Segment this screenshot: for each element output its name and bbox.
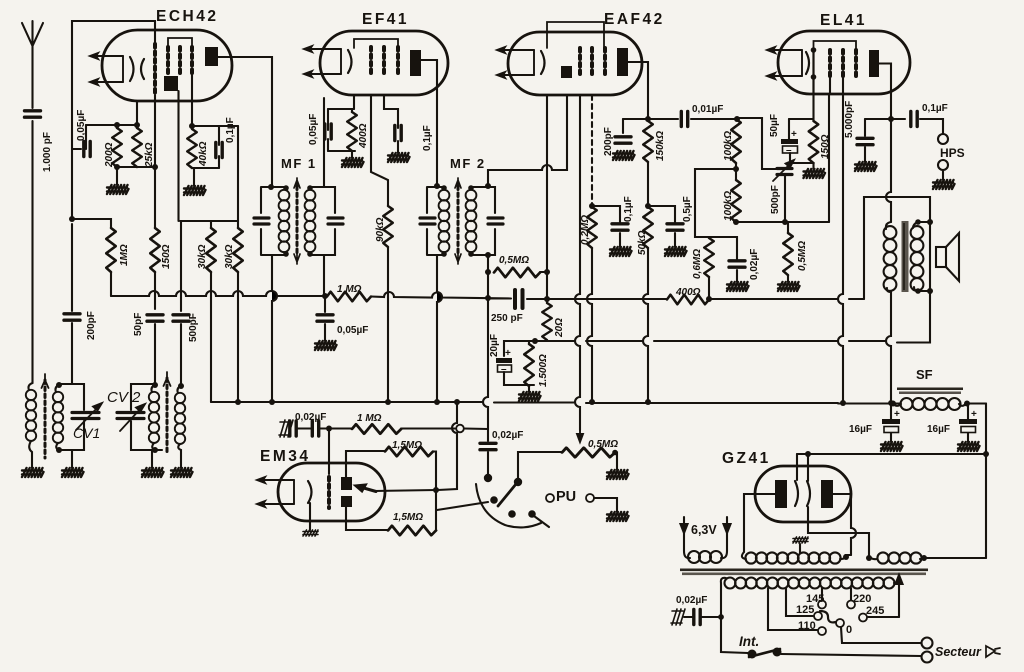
wire PU to ground [594,498,617,512]
svg-text:0,1µF: 0,1µF [225,117,236,143]
mains terminals [922,638,933,649]
wire diode to MF2 top [488,95,567,186]
output transformer primary [884,226,897,291]
svg-text:+: + [791,129,797,140]
resistor 50k [643,207,653,248]
wire selector to mains [841,627,921,643]
svg-text:220: 220 [853,593,871,605]
secondary frame [918,222,930,292]
node cathode rail [86,124,138,126]
resistor 30k second [237,221,239,228]
grid rail EL41 [736,221,829,223]
cathode bottom rail EL41 [790,163,814,169]
svg-text:PU: PU [556,489,576,505]
svg-text:Int.: Int. [739,634,759,649]
svg-text:CV 2: CV 2 [107,389,141,406]
wire 150 bottom to 50pF [154,272,156,309]
capacitor 200pF [64,314,80,320]
capacitor 5000pF [864,119,866,136]
rail 40k top [192,125,238,127]
svg-text:0,02µF: 0,02µF [749,249,760,280]
svg-text:0,2MΩ: 0,2MΩ [580,215,591,245]
ground [107,185,129,194]
svg-text:150Ω: 150Ω [820,134,831,159]
wire g1 down [154,95,156,228]
resistor 0.5M detector [494,268,540,278]
selector link [820,611,836,622]
tube EM34 envelope [278,463,385,521]
tube EF41 envelope [320,31,448,95]
grid strap ECH42 [168,38,192,47]
tap 110 [768,588,817,630]
resistor 40k [191,125,193,129]
capacitor 0.1uF output [911,112,917,127]
svg-text:250 pF: 250 pF [491,313,523,324]
tap 125 [786,588,813,616]
capacitor 0.01uF [681,112,687,127]
ground CV1 [71,450,73,468]
anode left GZ41 [775,480,787,508]
wire MF1 secondary top to EF41 grid [323,98,325,187]
tap 220 [850,588,852,600]
heater arrows EF41 [304,46,341,77]
capacitor 0.1uF [218,126,220,145]
svg-text:1 MΩ: 1 MΩ [337,284,362,295]
anode rail EAF42 [623,118,678,120]
mains primary winding [721,578,726,583]
wire target top [346,451,385,477]
svg-text:20Ω: 20Ω [554,318,565,338]
grid g1 column ECH42 [153,44,157,95]
tube EAF42 envelope [508,32,642,95]
svg-text:CV1: CV1 [73,425,100,441]
capacitor 0.1uF EF41 [395,126,401,141]
ground [388,153,410,162]
triode anode ECH42 [164,76,178,91]
MF1 secondary [307,185,313,191]
cathode line EL41 [812,50,814,94]
svg-text:EF41: EF41 [362,11,409,28]
capacitor 0.05uF EF41 [327,109,329,130]
svg-text:0,02µF: 0,02µF [492,430,523,441]
wire 50pF down [154,324,156,385]
ground osc coil [151,450,153,468]
capacitor 16uF right [967,404,986,420]
output transformer secondary [911,226,924,291]
6.3V arrows [681,517,731,533]
svg-text:0,5MΩ: 0,5MΩ [797,241,808,271]
magic eye feed line [438,402,457,490]
svg-text:0: 0 [846,624,852,636]
capacitor 0.02uF tone [729,261,745,267]
svg-text:200Ω: 200Ω [104,142,115,168]
target EM34 [341,477,352,490]
capacitor 16uF left [890,404,892,420]
detector bus right portion [709,298,864,300]
capacitor 0.05uF [85,125,87,149]
svg-text:+: + [505,348,511,359]
svg-text:125: 125 [796,604,814,616]
svg-text:EAF42: EAF42 [604,11,665,28]
transformer MF2 left frame [427,187,444,255]
wire 1.5M right side [433,452,436,530]
resistor 1.5M lower [388,526,436,536]
svg-text:+: + [894,409,900,420]
anode EL41 [869,50,879,77]
svg-text:1,5MΩ: 1,5MΩ [393,512,423,523]
wire EL41 g1 [829,77,830,222]
wire 0.01uF right [691,118,777,169]
capacitor 1000pF [25,111,41,117]
wire EL41 anode [879,64,891,223]
ground [184,186,206,195]
transformer MF1 left frame [261,187,286,255]
wire MF1 secondary bottom to AVC [323,255,325,296]
B+ riser to output stage [864,197,930,299]
wire tone branch [695,169,737,259]
wire 30k2 down to B+ bus [237,272,239,402]
AVC bus [111,291,327,296]
resistor 400 cathode EF41 [351,109,353,112]
wire eye grid [328,429,330,475]
switch wafer arc [476,484,541,527]
ground [342,158,364,167]
filament top wires GZ41 [797,454,808,481]
grid columns EL41 [828,50,832,77]
junction 20 bottom [546,340,548,341]
wire switch to volume [518,452,562,482]
junction 100k [735,163,737,180]
svg-text:100kΩ: 100kΩ [723,191,734,221]
cathode arc EL41 [806,52,809,74]
svg-text:6,3V: 6,3V [691,523,717,537]
wire EL41 cathode down [812,94,814,119]
deflector arrow [355,485,436,492]
resistor 90k [383,206,393,247]
grid strap EF41 [354,39,398,48]
resistor 150 cathode EL41 [812,119,814,121]
cathode arc EF41 [348,50,352,73]
svg-text:EL41: EL41 [820,12,867,29]
resistor 150 [150,228,160,272]
variable capacitor CV1 [72,413,99,419]
ground [315,341,337,350]
wire 200pF down [71,224,73,384]
svg-text:+: + [971,409,977,420]
svg-text:SF: SF [916,367,933,382]
rail cathode EF41 [328,108,354,110]
resistor 1.5M upper [385,447,433,457]
rail oscillator [180,220,238,222]
anode left wire [744,494,775,552]
anode rail 5000pF [865,118,905,120]
oscillator feedback coil [178,383,184,389]
antenna [22,21,43,108]
svg-text:100kΩ: 100kΩ [723,131,734,161]
heater arrows EL41 [767,47,802,79]
anode right GZ41 [821,480,833,508]
capacitor 0.02uF eye [290,421,296,436]
wire 1M to contact [401,427,455,429]
resistor 0.6M [704,238,714,277]
wire EAF42 g2 down dashed [591,95,593,204]
resistor 25k [132,128,142,167]
svg-text:0,1µF: 0,1µF [422,125,433,151]
svg-text:16µF: 16µF [927,424,950,435]
capacitor MF1 left [254,218,269,224]
svg-text:0,5µF: 0,5µF [682,196,693,222]
svg-text:245: 245 [866,605,884,617]
node AVC top [69,216,75,222]
detector bus with 250pF [488,297,667,300]
capacitor 500pF [173,315,189,321]
cathode arc ECH42 [130,57,144,81]
wire cathode down [136,101,138,125]
svg-text:150kΩ: 150kΩ [655,131,666,161]
wire primary left [721,583,748,653]
wire 0.2M to B+ [587,248,592,402]
MF1 core [296,186,299,256]
svg-text:0,05µF: 0,05µF [308,114,319,145]
switch tail [534,516,549,527]
wire 50k to B+ [643,248,648,402]
resistor 100k lower [731,180,741,222]
grid columns EF41 [369,47,373,76]
MF1 primary [268,184,274,190]
wire AVC to 1M [72,219,111,228]
switch contacts [484,474,492,482]
antenna coil primary [28,383,32,390]
wire pot right to ground [615,453,617,471]
hexode anode ECH42 [205,47,218,66]
filament takeoff line [797,453,986,455]
rail resistor bottoms [117,166,155,168]
output transformer core [902,221,909,292]
svg-text:500pF: 500pF [188,313,199,342]
resistor 1M [106,228,116,272]
capacitor MF1 right [328,218,343,224]
grid columns EAF42 [578,48,582,76]
wire 0.1uF to osc rail [237,126,239,221]
svg-text:0,6MΩ: 0,6MΩ [692,249,703,279]
svg-text:0,05µF: 0,05µF [337,325,368,336]
svg-text:ECH42: ECH42 [156,8,218,25]
tap 145 [821,588,823,600]
wire 500pF down [784,176,786,222]
grid column EM34 [327,477,331,508]
svg-text:500pF: 500pF [770,185,781,214]
PU contact left [546,494,554,502]
capacitor 50uF [788,119,790,139]
CV1 frame [59,384,84,450]
svg-text:1MΩ: 1MΩ [119,244,130,266]
grid columns ECH42 [166,47,170,73]
resistor 20 [546,299,548,303]
primary right end arrow [894,578,899,583]
antenna coil secondary [55,385,59,392]
tube GZ41 envelope [755,466,851,522]
svg-text:HPS: HPS [940,146,965,160]
MF1 right frame [310,187,335,255]
resistor 400 in bus [667,295,709,305]
HT centre tap ground [799,544,801,553]
wire Int to mains [781,654,921,656]
switch Int [748,650,757,659]
svg-text:50kΩ: 50kΩ [637,230,648,255]
anode EF41 [410,50,421,76]
wire screen down [191,73,193,128]
svg-text:200pF: 200pF [603,127,614,156]
rail cathode bottom EF41 [328,150,355,152]
tube EL41 envelope [778,31,910,94]
svg-text:50pF: 50pF [133,313,144,336]
wire EF41 cathode down [353,95,355,109]
wire MF2 primary bottom to B+ [437,255,442,402]
CV2 frame [131,384,162,450]
tap 245 [868,616,899,618]
diode anode EAF42 [561,66,572,78]
oscillator coil primary [152,382,158,388]
resistor 100k upper [731,119,741,163]
svg-text:0,05µF: 0,05µF [76,110,87,141]
capacitor 0.1uF EAF42 [592,206,620,222]
wire EF41 anode to MF2 [421,60,437,186]
wire to HPS [920,119,943,134]
g3 strap EL41 [814,41,857,50]
wire EAF42 g1 down [575,95,580,430]
svg-text:110: 110 [798,620,816,632]
resistor 1500 [528,341,530,344]
resistor 150k [647,119,649,121]
SF core [897,388,963,391]
wire 5V to B+ riser [924,557,986,559]
rectifier filament winding 5V [866,555,872,561]
capacitor 0.02uF switch [483,298,488,441]
ground 1500 [528,386,530,392]
HPS terminals [938,134,948,144]
speaker [936,247,946,267]
svg-text:50µF: 50µF [769,114,780,137]
MF2 primary [434,183,440,189]
svg-text:1.500Ω: 1.500Ω [538,354,549,387]
resistor 1M eye [352,424,401,434]
plug glyph [986,646,1000,657]
ground antenna coil [22,468,44,477]
ground feedback coil [171,468,193,477]
svg-text:0,01µF: 0,01µF [692,104,723,115]
wire EAF42 cathode down [546,95,548,299]
wiper arrow [577,428,583,442]
wire EAF42 anode [628,62,648,119]
capacitor 0.05uF on AVC bus [324,296,326,312]
MF2 secondary [468,185,474,191]
resistor 30k [210,221,212,228]
wire MF1 primary bottom to B+ [272,255,277,402]
wire hexode anode to MF1 [218,57,272,186]
heater winding 6.3V [684,533,690,558]
resistor 200 [112,128,122,167]
wire anode EM34 down [346,507,388,530]
svg-text:30kΩ: 30kΩ [224,244,235,269]
HT winding [742,552,746,559]
svg-text:0,1µF: 0,1µF [922,103,948,114]
cathode strap EAF42 [547,22,604,48]
wire 150k to 50k [647,162,649,207]
cathode rail EL41 [789,118,814,120]
PU contact right [586,494,594,502]
wire EL41 g2 to B+ [838,77,843,403]
wire detector down [487,255,489,298]
variable capacitor CV2 [117,413,144,419]
svg-text:400Ω: 400Ω [358,123,369,149]
capacitor 50pF [147,315,163,321]
svg-text:145: 145 [806,593,824,605]
wire feedback top [72,21,155,219]
wire ground 40k [193,168,195,186]
wire 500pF [180,221,182,386]
capacitor MF2 left [420,218,435,224]
wire triode anode down [177,91,179,221]
cathode arc EAF42 [541,51,545,74]
rail 40k bottom [192,167,219,169]
switch lever [498,484,516,506]
capacitor 0.02uF mains [671,609,685,625]
filament arcs GZ41 [795,481,798,506]
svg-text:Secteur: Secteur [935,645,982,659]
svg-text:40kΩ: 40kΩ [198,141,209,167]
heater arrows ECH42 [90,53,123,85]
anode EM34 [341,496,352,507]
svg-text:30kΩ: 30kΩ [197,244,208,269]
antenna coil core [44,380,47,458]
MF2 core [457,186,460,256]
wire 1.5M lower right [435,529,437,531]
cathode arc EM34 [308,481,312,503]
anode right wire [833,494,856,555]
capacitor 200pF [622,119,624,133]
svg-text:20µF: 20µF [489,334,500,357]
wire EF41 g3 to 90k [371,95,388,206]
B+ bus [211,402,900,404]
svg-text:MF 1: MF 1 [281,156,317,171]
svg-text:MF 2: MF 2 [450,156,486,171]
AVC bus right part [371,292,511,299]
svg-text:1 MΩ: 1 MΩ [357,413,382,424]
wire 30k1 down to B+ bus [210,272,212,402]
svg-text:0,5MΩ: 0,5MΩ [499,255,529,266]
ground 0.5M [787,275,789,282]
transformer core [680,569,928,572]
anode EAF42 [617,48,628,76]
capacitor 20uF electrolytic [504,341,535,356]
filament bottom wire GZ41 [808,507,869,556]
svg-text:GZ41: GZ41 [722,450,771,467]
resistor 0.5M grid EL41 [783,233,793,275]
resistor 1M in AVC bus [327,292,371,302]
heater arrows EM34 [257,477,294,507]
wire antenna down [31,121,33,383]
svg-text:0,1µF: 0,1µF [623,196,634,222]
svg-text:1.000 pF: 1.000 pF [42,132,53,172]
cathode ground EM34 [309,503,311,530]
node MF2 secondary top [485,183,491,189]
tube ECH42 envelope [102,30,232,101]
svg-text:90kΩ: 90kΩ [375,217,386,242]
svg-text:150Ω: 150Ω [161,244,172,269]
svg-text:0,5MΩ: 0,5MΩ [588,439,618,450]
B+ riser right [985,404,987,559]
wire EF41 g2 bypass [384,95,398,128]
